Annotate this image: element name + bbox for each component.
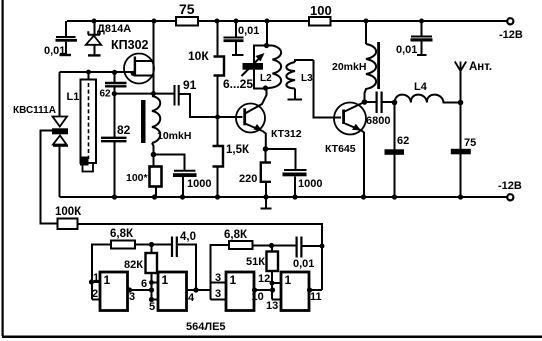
svg-text:5: 5 <box>149 301 155 313</box>
svg-text:1: 1 <box>285 273 292 287</box>
inductor 20mkH <box>332 21 380 102</box>
capacitor 1000 (second) <box>283 170 323 197</box>
svg-text:КП302: КП302 <box>111 38 149 52</box>
svg-text:51К: 51К <box>246 256 265 268</box>
logic gate DD1.3 <box>211 272 255 311</box>
node antenna junction <box>458 100 464 106</box>
capacitor 82 <box>101 94 131 197</box>
resistor 75 <box>176 1 198 26</box>
svg-text:82К: 82К <box>124 259 143 271</box>
svg-text:11: 11 <box>310 291 322 303</box>
svg-text:L4: L4 <box>414 81 428 93</box>
svg-text:КТ312: КТ312 <box>271 128 302 140</box>
svg-text:L3: L3 <box>301 73 313 84</box>
resistor 82К <box>124 245 157 300</box>
wire source node to 91 cap <box>115 93 175 95</box>
wire 6,8K to 4,0 cap <box>135 244 171 246</box>
wire down to 100* resistor <box>153 155 155 167</box>
wire varicap mid tap to 100K <box>41 131 58 224</box>
wire to 1000 cap <box>154 155 185 171</box>
svg-text:1000: 1000 <box>187 178 211 190</box>
svg-text:-12В: -12В <box>498 180 522 192</box>
capacitor 62 (antenna) <box>385 103 410 198</box>
node 10mkH bottom junction <box>151 152 157 158</box>
resistor 1,5К <box>213 144 250 197</box>
resistor 100 <box>309 3 332 26</box>
wire drain-source line of КП302 to rail and source node <box>153 21 155 94</box>
svg-text:1: 1 <box>104 273 111 287</box>
inductor L2 <box>260 46 281 89</box>
node 51K top junction <box>269 243 274 248</box>
node tank bottom <box>263 85 268 90</box>
node emitter junction КТ312 <box>263 146 269 152</box>
resistor 6,8К first <box>110 228 135 249</box>
svg-text:L1: L1 <box>67 91 80 103</box>
capacitor 6800 <box>365 92 395 128</box>
svg-text:6: 6 <box>141 278 147 290</box>
svg-text:564ЛЕ5: 564ЛЕ5 <box>186 321 226 333</box>
wire gate line to varicap <box>60 71 134 73</box>
svg-text:10: 10 <box>252 291 264 303</box>
inductor L1 <box>67 72 97 172</box>
svg-text:Д814А: Д814А <box>97 23 131 35</box>
wire 6,8K-2 to 0,01 cap <box>253 245 296 247</box>
transistor КП302 (JFET) <box>111 38 154 84</box>
wire gate1 output (pin 3) <box>128 289 152 291</box>
wire gate2 output (pin 4) <box>187 289 211 291</box>
junction dots on top rail <box>92 19 425 24</box>
svg-text:0,01: 0,01 <box>238 25 259 37</box>
capacitor 0,01 oscillator <box>293 237 325 271</box>
node 82 cap top <box>112 91 117 96</box>
svg-text:62: 62 <box>397 135 409 147</box>
ground stub on rail <box>261 197 272 209</box>
capacitor 0,01 right <box>396 21 433 56</box>
inductor 10mkH <box>141 94 191 155</box>
resistor 220 <box>239 149 271 197</box>
wire 100K to oscillator output <box>78 224 323 290</box>
svg-text:91: 91 <box>183 78 197 92</box>
svg-text:6,8К: 6,8К <box>110 228 134 240</box>
capacitor 91 <box>175 78 197 106</box>
svg-text:1: 1 <box>93 272 99 284</box>
logic gate DD1.2 <box>141 272 187 313</box>
node 82K top junction <box>149 242 154 247</box>
node tank top <box>264 43 269 48</box>
svg-text:0,01: 0,01 <box>293 258 314 270</box>
svg-text:-12В: -12В <box>499 29 523 41</box>
svg-text:220: 220 <box>239 173 257 185</box>
antenna Ант. <box>455 61 492 102</box>
svg-text:L2: L2 <box>260 73 272 84</box>
capacitor 0,01 left <box>44 21 77 57</box>
resistor 100К <box>55 206 82 229</box>
zener diode Д814А <box>86 21 131 55</box>
inductor L4 <box>395 81 461 103</box>
wire gate3 input branch <box>211 245 230 300</box>
svg-text:12: 12 <box>258 273 270 285</box>
svg-text:Ант.: Ант. <box>469 61 492 73</box>
svg-text:1: 1 <box>162 273 169 287</box>
logic gate DD1.1 <box>89 272 128 311</box>
wire 91 cap to КТ312 base <box>180 94 243 117</box>
terminal -12V bottom <box>507 194 513 200</box>
resistor 6,8К second <box>224 229 253 249</box>
node collector junction КТ645 <box>362 99 368 105</box>
svg-text:20mkH: 20mkH <box>332 61 366 73</box>
node base bias junction <box>215 115 220 120</box>
wire L3 to КТ645 base <box>314 60 342 118</box>
svg-text:13: 13 <box>266 300 278 312</box>
tank circuit: wire from rail down <box>266 21 268 46</box>
wire top supply rail <box>67 20 507 22</box>
wire gate3 output (pin 10) <box>254 289 272 291</box>
node 62 cap tap <box>112 70 117 75</box>
svg-text:100*: 100* <box>126 172 149 184</box>
svg-text:1,5К: 1,5К <box>226 144 250 156</box>
capacitor 1000 (first) <box>173 171 211 197</box>
svg-text:6800: 6800 <box>366 115 390 127</box>
wire emitter node to 1000 cap <box>266 149 296 170</box>
svg-text:100: 100 <box>310 3 332 18</box>
capacitor 75 (antenna) <box>451 103 476 198</box>
wire first gate input branch <box>92 245 111 300</box>
svg-text:3: 3 <box>129 291 135 303</box>
resistor 51К <box>246 246 278 300</box>
svg-text:1: 1 <box>230 273 237 287</box>
svg-text:3: 3 <box>215 272 221 284</box>
terminal -12V top <box>507 18 513 24</box>
svg-text:100К: 100К <box>55 206 82 218</box>
node source junction <box>151 91 156 96</box>
variable capacitor 6...25 <box>223 53 265 91</box>
svg-text:6,8К: 6,8К <box>224 229 248 241</box>
svg-text:10mkH: 10mkH <box>157 130 191 142</box>
svg-text:0,01: 0,01 <box>396 44 417 56</box>
svg-text:4: 4 <box>188 292 195 304</box>
resistor 10К <box>188 21 224 146</box>
capacitor 62 <box>100 72 127 100</box>
svg-text:3: 3 <box>215 288 221 300</box>
wire tank left branch <box>254 46 267 89</box>
svg-text:0,01: 0,01 <box>44 45 65 57</box>
transistor КТ312 <box>236 88 302 149</box>
svg-text:6...25: 6...25 <box>223 77 253 91</box>
capacitor 0,01 middle <box>224 21 260 55</box>
node gate2 input junctions <box>149 287 154 292</box>
logic gate DD1.4 <box>258 272 309 312</box>
varicap КВС111А <box>13 72 68 197</box>
node L1 top tap <box>86 70 91 75</box>
svg-text:82: 82 <box>117 123 131 137</box>
svg-text:62: 62 <box>100 89 112 100</box>
svg-text:КТ645: КТ645 <box>325 143 356 155</box>
svg-text:2: 2 <box>92 288 98 300</box>
transistor КТ645 <box>325 102 366 197</box>
wire gate4 output (pin 11) <box>309 289 322 291</box>
junction dots on bottom rail <box>112 194 463 199</box>
capacitor 4,0 <box>172 231 196 290</box>
svg-text:1000: 1000 <box>298 178 322 190</box>
wire bottom common rail <box>60 196 508 198</box>
svg-text:КВС111А: КВС111А <box>13 105 56 116</box>
node 6800/L4/62 junction <box>392 100 398 106</box>
svg-text:75: 75 <box>179 1 195 17</box>
svg-text:4,0: 4,0 <box>180 231 196 243</box>
svg-text:75: 75 <box>464 137 476 149</box>
svg-text:10К: 10К <box>188 49 209 63</box>
resistor 100* <box>126 167 162 198</box>
inductor L3 <box>286 60 313 100</box>
